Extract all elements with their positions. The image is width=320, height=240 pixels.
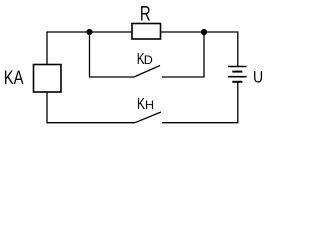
svg-text:KA: KA xyxy=(4,66,24,88)
svg-text:H: H xyxy=(145,99,154,112)
svg-text:R: R xyxy=(140,2,151,25)
svg-text:D: D xyxy=(144,53,153,66)
svg-text:U: U xyxy=(253,68,263,86)
